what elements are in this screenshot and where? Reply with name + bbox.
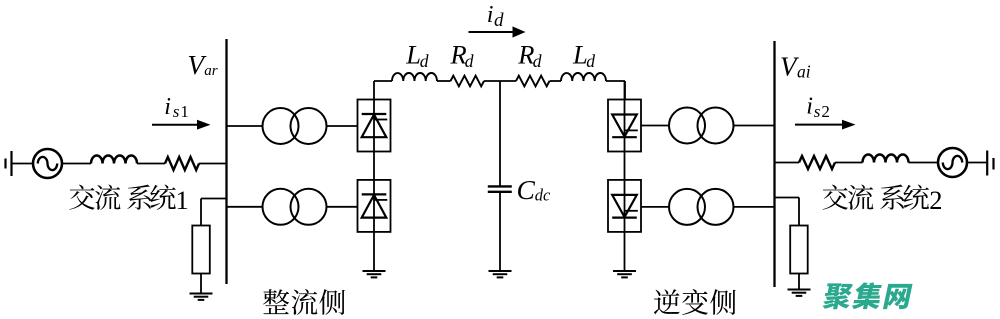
wire bbox=[437, 80, 451, 82]
wire bbox=[641, 125, 670, 127]
wire bbox=[62, 163, 91, 165]
wire bbox=[909, 162, 939, 164]
inductor Ls2 bbox=[863, 155, 909, 163]
valve V1 (rectifier upper) bbox=[358, 100, 391, 152]
svg-text:i: i bbox=[164, 94, 171, 120]
svg-text:dc: dc bbox=[535, 186, 551, 205]
capacitor C_dc bbox=[488, 186, 512, 191]
wire bbox=[12, 163, 34, 165]
svg-text:ai: ai bbox=[797, 62, 811, 82]
watermark logo 聚集网 bbox=[822, 282, 913, 309]
label i_s2 bbox=[806, 94, 830, 122]
svg-text:C: C bbox=[517, 174, 536, 205]
resistor R2 (AC filter branch, right) bbox=[790, 226, 808, 274]
svg-text:i: i bbox=[487, 2, 494, 28]
inductor Ld left bbox=[392, 73, 437, 81]
svg-text:d: d bbox=[533, 51, 542, 71]
wire (inverter valve column) bbox=[624, 81, 626, 271]
label V_ar bbox=[188, 50, 218, 80]
valve V3 (inverter upper) bbox=[608, 100, 641, 152]
valve V2 (rectifier lower) bbox=[358, 180, 391, 232]
ground bbox=[363, 271, 386, 277]
ground bbox=[190, 294, 213, 300]
wire (cap top lead) bbox=[499, 81, 501, 186]
wire bbox=[327, 206, 358, 208]
svg-text:d: d bbox=[586, 51, 595, 71]
arrow i_s2 bbox=[795, 120, 856, 130]
label C_dc bbox=[517, 174, 552, 205]
svg-text:2: 2 bbox=[821, 102, 830, 121]
label: rectifier side (整流侧) bbox=[263, 289, 345, 315]
wire (rectifier valve column) bbox=[373, 81, 375, 271]
wire bbox=[137, 163, 165, 165]
wire (cap bottom lead) bbox=[499, 192, 501, 271]
wire bbox=[835, 162, 863, 164]
wire bbox=[200, 274, 202, 294]
wire bbox=[775, 198, 800, 226]
label R_d (left) bbox=[450, 39, 474, 71]
svg-text:s: s bbox=[173, 102, 180, 121]
terminal right (source terminal bars) bbox=[987, 151, 993, 176]
svg-text:d: d bbox=[494, 10, 504, 31]
label: AC system 2 (交流 系统2) bbox=[823, 184, 943, 214]
wire bbox=[327, 125, 358, 127]
wire bbox=[641, 206, 670, 208]
svg-text:ar: ar bbox=[204, 63, 218, 79]
label V_ai bbox=[780, 52, 811, 82]
label i_d bbox=[487, 2, 504, 31]
ac source G1 bbox=[33, 149, 62, 178]
ground bbox=[613, 271, 636, 277]
label L_d (right) bbox=[572, 40, 595, 71]
resistor R1 (AC filter branch, left) bbox=[192, 226, 210, 274]
resistor Rs1 bbox=[165, 157, 199, 170]
resistor Rs2 bbox=[799, 156, 835, 169]
wire bbox=[550, 80, 562, 82]
transformer upper-left bbox=[263, 108, 327, 144]
svg-text:i: i bbox=[806, 94, 813, 120]
svg-text:L: L bbox=[405, 40, 421, 70]
wire bbox=[734, 206, 775, 208]
ground bbox=[788, 290, 811, 296]
svg-text:1: 1 bbox=[180, 102, 189, 121]
wire bbox=[484, 80, 516, 82]
inductor Ls1 bbox=[91, 156, 137, 164]
bus bar Var (rectifier AC bus) bbox=[225, 39, 227, 284]
resistor Rd right bbox=[516, 76, 549, 87]
label L_d (left) bbox=[405, 40, 429, 71]
wire bbox=[227, 125, 263, 127]
inductor Ld right bbox=[561, 73, 606, 81]
ground bbox=[489, 271, 512, 277]
wire bbox=[734, 125, 775, 127]
label: AC system 1 (交流 系统1) bbox=[69, 184, 188, 214]
ac source G2 bbox=[938, 148, 967, 177]
wire (dc rail) bbox=[374, 80, 392, 82]
svg-text:1: 1 bbox=[176, 185, 189, 215]
label: inverter side (逆变侧) bbox=[654, 289, 736, 315]
svg-text:2: 2 bbox=[929, 185, 942, 215]
valve V4 (inverter lower) bbox=[608, 180, 641, 232]
transformer lower-right bbox=[669, 189, 734, 225]
wire bbox=[227, 206, 263, 208]
wire bbox=[199, 163, 227, 165]
wire bbox=[201, 199, 227, 226]
bus bar Vai (inverter AC bus) bbox=[773, 41, 775, 287]
terminal left (source terminal bars) bbox=[6, 151, 12, 176]
wire bbox=[798, 274, 800, 290]
label R_d (right) bbox=[517, 39, 542, 71]
transformer lower-left bbox=[263, 189, 327, 225]
wire bbox=[775, 162, 800, 164]
arrow i_d bbox=[469, 26, 526, 37]
resistor Rd left bbox=[451, 76, 484, 87]
svg-text:s: s bbox=[814, 102, 821, 121]
svg-text:d: d bbox=[465, 51, 474, 71]
wire bbox=[606, 81, 625, 100]
wire bbox=[967, 162, 987, 164]
label i_s1 bbox=[164, 94, 189, 121]
svg-text:d: d bbox=[420, 51, 429, 71]
arrow i_s1 bbox=[152, 120, 211, 130]
transformer upper-right bbox=[669, 108, 734, 144]
